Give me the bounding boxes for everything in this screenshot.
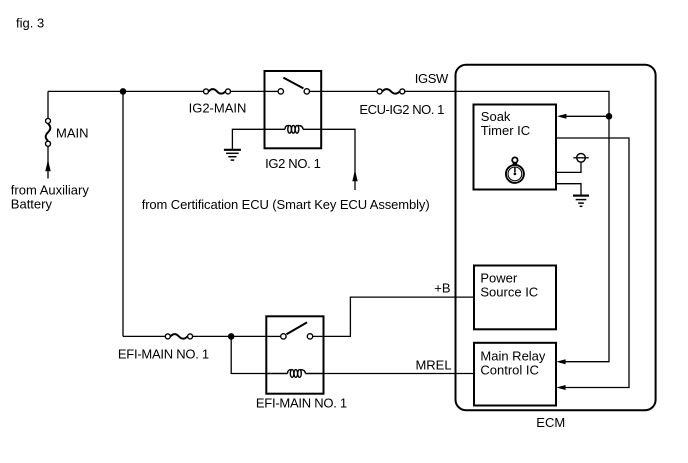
wire top horizontal to ECM (321, 90, 377, 92)
wire coil to ground (232, 129, 264, 149)
svg-text:Timer IC: Timer IC (481, 123, 530, 138)
wire soak output to right vertical (556, 138, 629, 388)
node junction IGSW branch (606, 113, 613, 120)
terminal circle symbol (577, 154, 586, 163)
fuse ECU-IG2 NO. 1 (377, 89, 405, 94)
wire top horizontal mid segment (230, 90, 264, 92)
svg-text:ECM: ECM (536, 415, 565, 430)
relay IG2 switch contacts (265, 78, 322, 95)
node junction top-left (120, 88, 127, 95)
svg-text:+B: +B (434, 280, 450, 295)
svg-text:fig. 3: fig. 3 (16, 16, 44, 31)
wire top horizontal left segment (48, 90, 204, 92)
arrow from certification ECU (352, 170, 357, 181)
fuse IG2-MAIN (204, 89, 231, 94)
Power Source IC box (474, 266, 556, 330)
svg-text:EFI-MAIN NO. 1: EFI-MAIN NO. 1 (256, 396, 347, 411)
wire arrow branch to Soak Timer IC (566, 115, 609, 117)
svg-text:Battery: Battery (11, 197, 53, 212)
wire left vertical branch (47, 91, 49, 118)
wire MREL (324, 373, 475, 375)
svg-text:MAIN: MAIN (56, 126, 89, 141)
fuse EFI-MAIN NO. 1 (165, 334, 192, 339)
ground (inside ECM) (573, 196, 589, 207)
arrow into Main Relay Control IC (lower) (556, 385, 565, 390)
Main Relay Control IC box (474, 343, 556, 406)
svg-text:from Auxiliary: from Auxiliary (11, 183, 90, 198)
wire relay switch out to +B (324, 297, 475, 336)
ground (IG2 relay coil) (224, 150, 241, 160)
svg-text:Source IC: Source IC (480, 284, 538, 299)
svg-text:MREL: MREL (415, 357, 451, 372)
fuse MAIN (46, 118, 51, 146)
svg-text:IGSW: IGSW (415, 71, 449, 86)
relay EFI coil (266, 370, 323, 378)
svg-text:Soak: Soak (481, 109, 511, 124)
arrow into Main Relay Control IC (upper) (556, 359, 565, 364)
svg-text:EFI-MAIN NO. 1: EFI-MAIN NO. 1 (118, 346, 209, 361)
wire fuse to relay (193, 335, 267, 337)
wire from battery with arrow (47, 146, 49, 178)
wire left vertical down (122, 91, 124, 336)
svg-text:IG2-MAIN: IG2-MAIN (189, 100, 247, 115)
wire junction down to coil (231, 336, 266, 373)
relay EFI-MAIN NO. 1 box (266, 316, 323, 393)
wire coil right to certification arrow (321, 129, 355, 190)
ECM box (456, 65, 656, 411)
relay EFI switch contacts (266, 322, 323, 339)
node junction before EFI relay (228, 333, 235, 340)
relay IG2 coil (265, 125, 322, 133)
Soak Timer IC box (474, 105, 557, 190)
svg-text:Control IC: Control IC (480, 362, 539, 377)
arrow up from auxiliary battery (45, 160, 50, 172)
wire soak to terminal symbol (556, 162, 581, 172)
svg-text:from Certification ECU (Smart: from Certification ECU (Smart Key ECU As… (142, 197, 430, 212)
stopwatch icon (506, 157, 524, 182)
wire IGSW into ECM down right side (405, 91, 609, 361)
relay IG2 NO. 1 box (265, 71, 322, 148)
wire bottom horizontal to fuse (123, 335, 165, 337)
svg-text:IG2 NO. 1: IG2 NO. 1 (265, 156, 321, 171)
svg-text:ECU-IG2 NO. 1: ECU-IG2 NO. 1 (359, 102, 444, 117)
arrow into Soak Timer IC (557, 114, 566, 119)
wire soak to ground (556, 184, 581, 195)
